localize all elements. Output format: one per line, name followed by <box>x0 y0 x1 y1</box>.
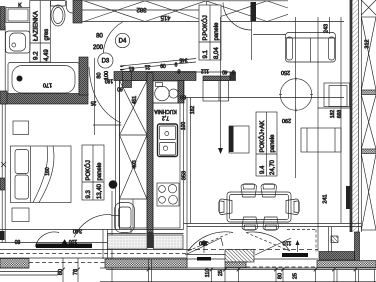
bed <box>11 146 72 203</box>
svg-text:415: 415 <box>160 14 171 20</box>
svg-text:24,70: 24,70 <box>270 159 276 175</box>
svg-text:25: 25 <box>293 273 299 279</box>
kitchen sink 2 basins <box>153 81 178 103</box>
svg-text:160: 160 <box>45 167 51 176</box>
room table 9.2 LAZIENKA <box>30 1 51 63</box>
nightstand <box>12 208 29 222</box>
armchair <box>115 203 135 233</box>
kitchen counter <box>153 98 191 229</box>
svg-text:100: 100 <box>181 122 187 131</box>
door circle D3 <box>98 53 113 68</box>
svg-text:6: 6 <box>232 69 235 75</box>
door circle D4 <box>115 33 129 47</box>
svg-text:110: 110 <box>283 239 292 245</box>
partition wall bedroom/kitchen <box>116 72 120 230</box>
terrace door frame lines <box>102 230 104 260</box>
room table 9.4 POKOJ+AK <box>256 112 277 176</box>
svg-text:4,49: 4,49 <box>44 49 50 61</box>
bathroom door arc <box>89 58 123 135</box>
svg-text:290: 290 <box>282 117 291 123</box>
bedroom balcony door arcs <box>35 214 120 247</box>
tall cabinet column with X <box>120 81 148 234</box>
svg-text:60: 60 <box>180 94 186 100</box>
chair bottom 2 <box>263 217 279 230</box>
furniture rect right <box>301 128 341 152</box>
svg-text:451: 451 <box>132 96 138 105</box>
chair bottom 1 <box>242 217 258 230</box>
svg-text:160: 160 <box>105 78 114 84</box>
right sill black bar <box>282 253 308 257</box>
svg-text:D4: D4 <box>119 39 127 45</box>
svg-text:POKÓJ+AK: POKÓJ+AK <box>259 121 266 153</box>
svg-text:170: 170 <box>43 82 52 88</box>
svg-text:ŁAZIENKA: ŁAZIENKA <box>33 10 40 41</box>
chair top 2 <box>261 184 277 197</box>
svg-text:340: 340 <box>73 227 82 233</box>
svg-text:8,04: 8,04 <box>214 47 220 59</box>
living floor line <box>184 223 362 225</box>
svg-text:09: 09 <box>160 62 166 68</box>
door D4 arc <box>103 22 122 59</box>
svg-text:KUCHNIA: KUCHNIA <box>154 108 177 114</box>
living balcony doors <box>185 232 318 259</box>
washing machine <box>6 3 30 23</box>
svg-text:21: 21 <box>145 64 151 70</box>
svg-text:80: 80 <box>97 72 103 78</box>
svg-text:61: 61 <box>129 65 135 71</box>
chair left <box>219 199 232 215</box>
top lattice band <box>82 1 344 30</box>
bottom right corner details <box>355 232 360 266</box>
bathtub <box>8 63 79 97</box>
bathroom walls (stippled) <box>0 0 88 104</box>
room table 9.3 POKOJ <box>82 145 104 200</box>
TV unit <box>229 126 249 153</box>
left exterior wall lines <box>1 104 3 243</box>
terrace lines bottom <box>0 258 376 282</box>
svg-text:668: 668 <box>337 110 343 119</box>
svg-text:312: 312 <box>365 39 371 48</box>
svg-text:panele: panele <box>214 22 220 41</box>
svg-text:25: 25 <box>91 100 97 106</box>
svg-text:241: 241 <box>323 194 329 203</box>
svg-text:panele: panele <box>97 162 103 181</box>
svg-text:25: 25 <box>218 270 224 276</box>
bedroom window sill <box>0 239 107 248</box>
kitchen right wall stub <box>178 81 184 104</box>
round table <box>279 17 313 178</box>
long leader line to TV <box>218 17 223 154</box>
svg-text:9: 9 <box>174 61 177 67</box>
svg-text:80: 80 <box>96 34 103 40</box>
svg-text:382: 382 <box>136 6 147 12</box>
dim line above kitchen wall <box>175 68 236 75</box>
washbasin <box>6 31 31 53</box>
section marker dot + line <box>109 180 118 282</box>
svg-text:200: 200 <box>93 45 104 51</box>
hall closet <box>203 81 229 102</box>
svg-text:353: 353 <box>182 171 188 180</box>
dresser <box>13 121 29 135</box>
bedroom wall line bottom <box>0 229 184 231</box>
svg-text:250: 250 <box>281 69 290 75</box>
svg-text:9.3: 9.3 <box>86 189 92 198</box>
dining table <box>227 192 291 222</box>
neighbour lattice right <box>361 0 376 230</box>
radiator <box>346 186 350 209</box>
svg-text:9.4: 9.4 <box>260 165 266 174</box>
svg-text:182: 182 <box>190 106 196 115</box>
svg-text:POKÓJ: POKÓJ <box>85 160 92 180</box>
kitchen sink rect <box>158 124 178 157</box>
chair top 1 <box>241 184 257 197</box>
svg-text:80: 80 <box>15 238 21 244</box>
entry door arc (top) <box>223 2 286 60</box>
chair right <box>286 199 299 215</box>
room table 9.1 P.POKOJ <box>199 5 221 60</box>
svg-text:9.2: 9.2 <box>33 51 40 60</box>
svg-text:panele: panele <box>270 134 276 153</box>
living room / hall boundary lines <box>183 81 185 230</box>
toilet <box>51 1 79 27</box>
svg-text:8: 8 <box>177 68 180 74</box>
svg-text:gres: gres <box>44 29 50 41</box>
hatched pillar between doors <box>225 250 254 263</box>
stove 4 burners <box>157 183 179 206</box>
svg-text:9.1: 9.1 <box>203 49 209 58</box>
balcony band lines <box>0 250 187 259</box>
svg-text:243: 243 <box>324 24 330 33</box>
kitchen balcony sill <box>107 233 184 250</box>
cabinet hatch stub <box>123 72 132 88</box>
svg-text:K: K <box>18 3 22 9</box>
svg-text:7,2: 7,2 <box>162 115 169 121</box>
svg-text:110: 110 <box>205 269 211 278</box>
right exterior wall <box>318 0 361 232</box>
kitchen wall strip (hatched) <box>147 73 153 233</box>
chairs <box>219 184 299 230</box>
left edge wall fragments <box>0 7 5 31</box>
svg-text:80: 80 <box>278 273 284 279</box>
svg-text:403: 403 <box>132 160 138 169</box>
bottom right wall <box>319 252 355 261</box>
svg-text:60: 60 <box>117 86 123 92</box>
svg-text:112: 112 <box>201 68 209 74</box>
svg-text:345: 345 <box>179 57 188 63</box>
sofa <box>286 33 336 63</box>
svg-text:100: 100 <box>69 238 78 244</box>
svg-text:182: 182 <box>330 110 336 119</box>
svg-text:P.POKÓJ: P.POKÓJ <box>202 15 209 40</box>
svg-text:13,40: 13,40 <box>97 183 103 199</box>
svg-text:40: 40 <box>222 69 228 75</box>
svg-text:78: 78 <box>73 269 79 275</box>
svg-text:80: 80 <box>58 269 64 275</box>
sideboard right wall <box>324 83 350 107</box>
svg-text:D3: D3 <box>102 59 110 65</box>
slanted dim lines with arrows (hall) <box>120 57 196 72</box>
kitchen top wall <box>114 72 196 81</box>
left bottom lines <box>0 271 58 273</box>
svg-text:110: 110 <box>199 239 208 245</box>
thin line across living <box>184 97 345 99</box>
checker band pieces <box>0 259 29 269</box>
